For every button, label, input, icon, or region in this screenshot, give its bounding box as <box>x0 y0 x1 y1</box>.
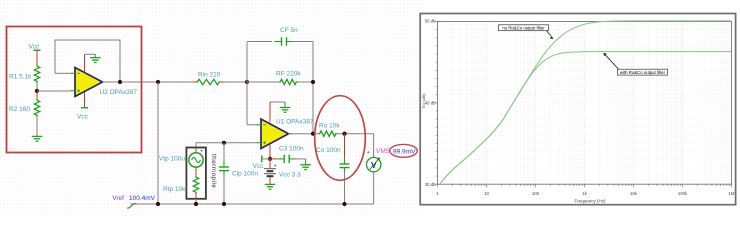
chart curve with output filter <box>440 52 731 184</box>
junction rail-Co <box>342 202 346 206</box>
svg-text:Vcc: Vcc <box>253 163 265 170</box>
svg-text:100.4mV: 100.4mV <box>129 195 156 202</box>
wire U2 positive supply to Vcc <box>84 92 86 108</box>
svg-text:VM5: VM5 <box>376 148 390 155</box>
resistor Rin <box>193 79 224 84</box>
capacitor Co <box>340 158 350 174</box>
svg-text:R1 5.1k: R1 5.1k <box>9 73 32 80</box>
capacitor C3 <box>277 155 296 164</box>
net Vref bottom rail <box>131 203 374 205</box>
source Vtp positive mark <box>201 150 203 152</box>
red highlight rectangle around reference divider <box>7 27 142 153</box>
label Vcc below U2 <box>77 113 89 120</box>
wire Rin to U1 feedback node <box>224 81 248 83</box>
wire U2 output <box>103 81 197 83</box>
wire Co to bottom rail <box>344 172 346 205</box>
power Vcc label (reference divider) <box>29 44 41 51</box>
label Co 100n <box>316 147 341 154</box>
battery Vcc 3.3 positive mark <box>274 164 276 166</box>
svg-text:99.9mV: 99.9mV <box>393 148 416 155</box>
svg-text:with Ro&Co output filter: with Ro&Co output filter <box>620 70 666 75</box>
svg-text:Vcc: Vcc <box>77 113 89 120</box>
voltmeter VM5 <box>367 157 381 172</box>
wire CF branch up-left <box>247 42 272 83</box>
chart callout no Ro&Co output filter <box>499 25 554 39</box>
wire U1 output <box>289 133 319 135</box>
wire U1 minus input from feedback node <box>247 82 257 125</box>
label Vcc 3.3 <box>279 171 301 178</box>
red highlight ellipse around Ro and Co <box>315 96 366 181</box>
wire Ro to corner <box>337 133 374 135</box>
label Clp 100n <box>232 171 258 178</box>
wire Vcc to R1 <box>36 56 38 65</box>
wire CF branch right-down <box>291 42 313 135</box>
resistor RF <box>247 79 313 84</box>
wire Clp branch <box>223 143 225 163</box>
wire feedback to U2 minus input <box>55 72 71 74</box>
wire battery to ground <box>269 177 271 184</box>
ground below battery Vcc 3.3 <box>265 184 276 189</box>
svg-text:100k: 100k <box>678 191 688 196</box>
junction Clp branch node <box>222 141 226 145</box>
label R1 5.1k <box>9 73 32 80</box>
junction U1 supply node <box>268 157 272 161</box>
svg-text:Rtp 10k: Rtp 10k <box>163 186 186 193</box>
battery Vcc 3.3 <box>264 169 276 177</box>
op-amp U1 <box>257 119 293 149</box>
wire R2 to ground <box>36 117 38 137</box>
ground below R2 <box>32 136 43 141</box>
label R2 160 <box>9 106 30 113</box>
thermopile box <box>186 148 206 199</box>
svg-text:Ro 10k: Ro 10k <box>319 122 340 129</box>
ground at U1 negative supply <box>280 108 291 113</box>
power Vcc jumper left of supply node <box>261 155 263 162</box>
label RF 220k <box>276 70 301 77</box>
junction Vref branch node <box>156 80 160 84</box>
wire thermopile to U1 plus input <box>196 143 257 148</box>
svg-text:C3 100n: C3 100n <box>279 145 304 152</box>
wire R1 to node A <box>36 83 38 92</box>
op-amp U2 <box>71 68 107 97</box>
wire node A to R2 <box>36 91 38 99</box>
svg-text:30 db: 30 db <box>425 182 436 187</box>
svg-text:40 db: 40 db <box>425 101 436 106</box>
svg-text:10k: 10k <box>630 191 638 196</box>
resistor Ro <box>319 131 337 136</box>
wire node A to U2 plus input <box>37 90 71 92</box>
svg-text:Tco (dB): Tco (dB) <box>421 93 426 109</box>
label thermopile (rotated) <box>210 154 217 188</box>
label Vref value 100.4mV <box>129 195 156 202</box>
svg-text:1M: 1M <box>729 191 735 196</box>
label Vcc left of C3 <box>253 163 265 170</box>
Vref rail jumper hook <box>127 204 137 208</box>
resistor Rtp <box>193 176 198 193</box>
junction U1 minus feedback node <box>245 80 249 84</box>
junction rail-thermopile <box>194 202 198 206</box>
wire output corner down to VM5 <box>373 134 375 158</box>
wire U2 feedback loop (output to minus input) <box>55 40 120 82</box>
label C3 100n <box>279 145 304 152</box>
svg-text:Co 100n: Co 100n <box>316 147 341 154</box>
junction rail-Clp <box>222 202 226 206</box>
label U1 OPAx387 <box>276 118 314 125</box>
wire U1 negative supply to ground <box>270 102 285 122</box>
label U2 OPAx387 <box>100 89 138 96</box>
wire Rtp to box pin <box>195 194 197 199</box>
svg-text:Vcc: Vcc <box>29 44 41 51</box>
junction U2 feedback node <box>118 80 122 84</box>
svg-text:Frequency (Hz): Frequency (Hz) <box>574 198 606 203</box>
wire Vref branch down to bottom rail <box>157 82 159 204</box>
ground at U2 negative supply <box>90 58 101 63</box>
junction rail-Vref branch <box>156 202 160 206</box>
wire Vtp to Rtp <box>195 167 197 176</box>
svg-text:Vref: Vref <box>112 195 124 202</box>
capacitor Clp <box>219 161 229 177</box>
label Vtp 100u <box>159 156 185 163</box>
resistor R2 <box>34 99 39 117</box>
capacitor CF <box>275 37 294 46</box>
junction U1 output feedback node <box>311 132 315 136</box>
svg-text:Vtp 100u: Vtp 100u <box>159 156 185 163</box>
svg-text:no Ro&Co output filter: no Ro&Co output filter <box>502 26 545 31</box>
wire U1 positive supply pin <box>269 145 271 159</box>
label Rin 220 <box>198 71 221 78</box>
svg-text:U2 OPAx387: U2 OPAx387 <box>100 89 138 96</box>
svg-text:RF 220k: RF 220k <box>276 70 301 77</box>
svg-text:100: 100 <box>532 191 540 196</box>
junction Co branch node <box>342 132 346 136</box>
svg-text:CF 5n: CF 5n <box>280 27 298 34</box>
wire VM5 to bottom rail <box>373 172 375 204</box>
label Vref <box>112 195 124 202</box>
label CF 5n <box>280 27 298 34</box>
wire C3 to ground <box>294 159 306 165</box>
power Vcc rail jumper above R1 <box>34 50 41 56</box>
svg-text:Rin 220: Rin 220 <box>198 71 221 78</box>
node A junction (divider tap) <box>35 89 39 93</box>
svg-text:Clp 100n: Clp 100n <box>232 171 258 178</box>
wire U2 negative supply to ground <box>85 54 96 72</box>
resistor R1 <box>34 65 39 83</box>
voltage source Vtp (AC) <box>189 148 203 168</box>
label Ro 10k <box>319 122 340 129</box>
svg-text:thermopile: thermopile <box>210 154 217 188</box>
chart callout with Ro&Co output filter <box>603 53 667 75</box>
power Vcc jumper below U2 <box>81 107 88 109</box>
junction RF right node <box>311 80 315 84</box>
ground right of C3 <box>300 165 311 170</box>
svg-text:50 db: 50 db <box>425 19 436 24</box>
svg-text:U1 OPAx387: U1 OPAx387 <box>276 118 314 125</box>
chart curve without output filter <box>440 21 731 184</box>
wire supply node to battery <box>269 159 271 168</box>
svg-text:R2 160: R2 160 <box>9 106 30 113</box>
wire thermopile pin to bottom rail <box>195 199 197 204</box>
svg-text:10: 10 <box>484 191 489 196</box>
wire Co branch <box>344 134 346 162</box>
label VM5 <box>376 148 390 155</box>
voltmeter VM5 positive mark <box>367 151 369 153</box>
label VM5 reading 99.9mV <box>393 148 416 155</box>
svg-text:Vcc 3.3: Vcc 3.3 <box>279 171 301 178</box>
wire Clp to bottom rail <box>223 175 225 205</box>
wire supply node to C3 <box>270 158 277 160</box>
wire supply node to Vcc jumper <box>262 158 270 160</box>
label Rtp 10k <box>163 186 186 193</box>
chart panel frame and grid <box>420 14 735 205</box>
red highlight ellipse around 99.9mV reading <box>390 144 418 157</box>
